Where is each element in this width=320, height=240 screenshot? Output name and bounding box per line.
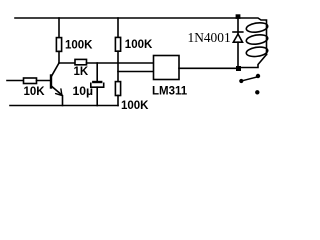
- svg-text:1K: 1K: [74, 66, 89, 78]
- svg-text:10K: 10K: [24, 86, 46, 98]
- svg-text:100K: 100K: [121, 100, 149, 112]
- svg-text:10µ: 10µ: [73, 84, 94, 98]
- svg-text:100K: 100K: [65, 40, 93, 52]
- svg-text:100K: 100K: [125, 39, 153, 51]
- svg-text:1N4001: 1N4001: [188, 30, 231, 45]
- svg-text:LM311: LM311: [152, 85, 188, 97]
